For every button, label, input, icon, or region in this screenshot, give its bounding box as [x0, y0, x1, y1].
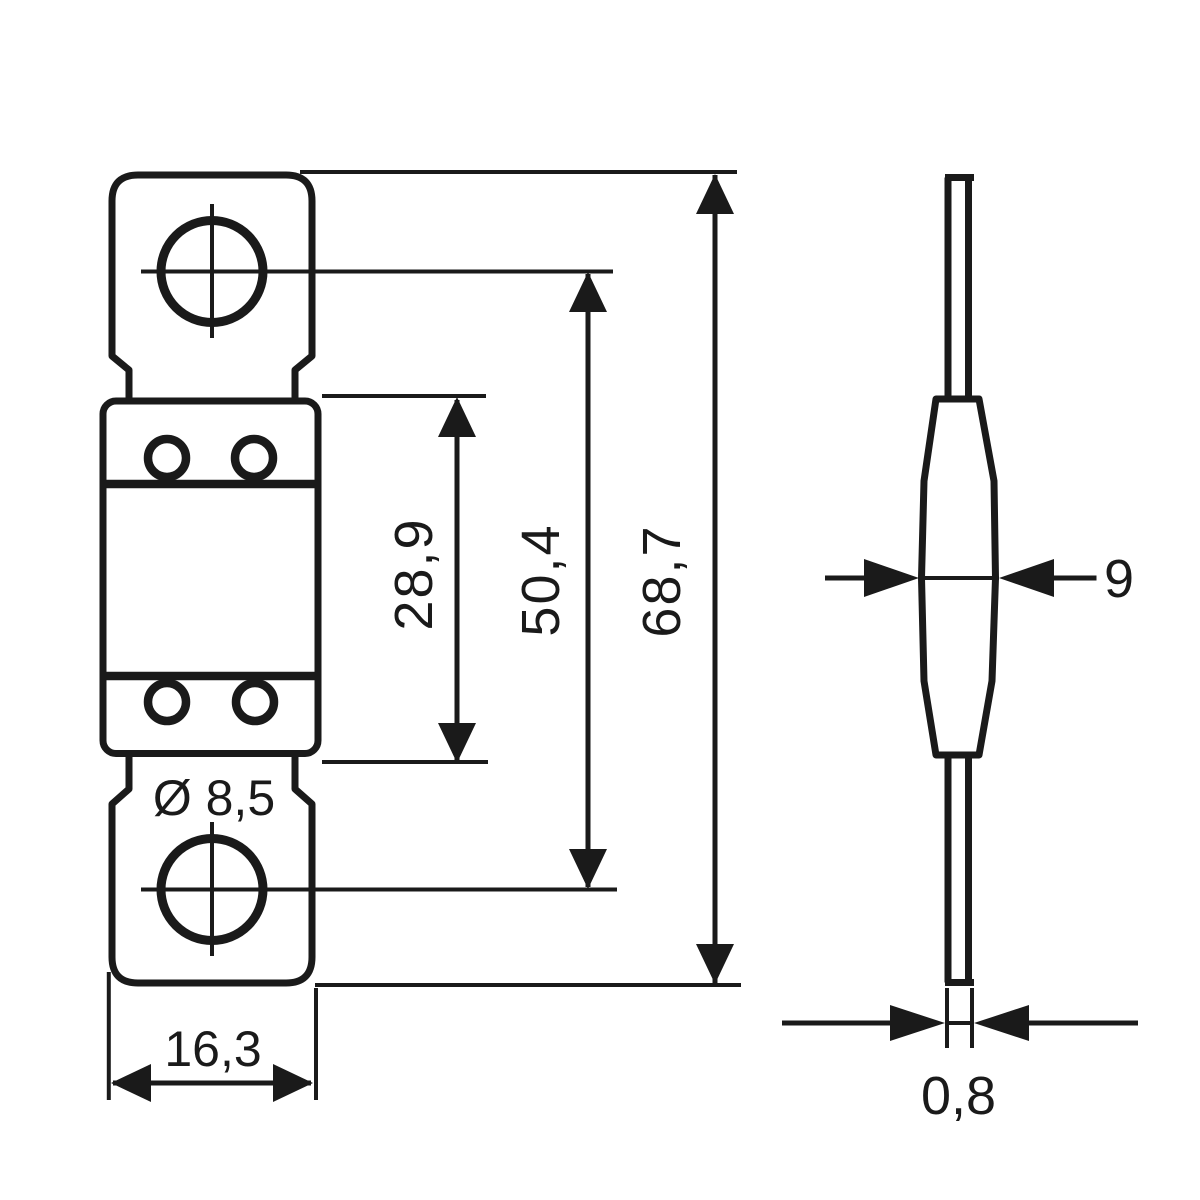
svg-text:Ø 8,5: Ø 8,5	[153, 770, 275, 826]
svg-text:0,8: 0,8	[921, 1066, 996, 1126]
svg-text:16,3: 16,3	[164, 1021, 261, 1077]
svg-text:28,9: 28,9	[384, 517, 444, 630]
svg-text:50,4: 50,4	[511, 523, 571, 636]
svg-text:9: 9	[1104, 549, 1134, 609]
svg-text:68,7: 68,7	[632, 524, 692, 637]
